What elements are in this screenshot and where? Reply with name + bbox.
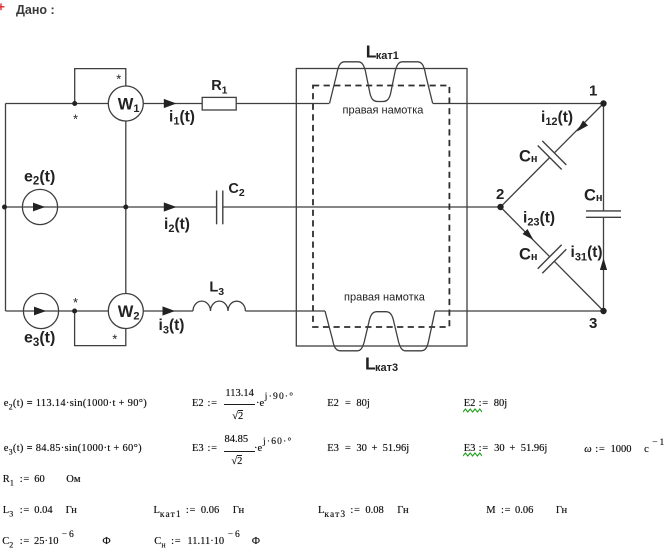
svg-text:L3: L3 xyxy=(209,280,224,298)
equation E2 evaluated xyxy=(327,398,370,410)
current arrow i23 xyxy=(523,209,556,240)
wire top branch segment 1 xyxy=(6,103,109,105)
equation L3 xyxy=(3,505,77,517)
coil Lkat1 xyxy=(330,42,433,104)
wattmeter W1 xyxy=(73,72,143,127)
wire diagonal node1-node2 upper segment xyxy=(554,104,603,153)
svg-text:i2(t): i2(t) xyxy=(164,216,190,235)
coupled inductor outer box xyxy=(296,69,467,347)
wattmeter W2 xyxy=(73,294,143,347)
node 3 xyxy=(589,308,607,332)
svg-text:правая намотка: правая намотка xyxy=(344,292,426,304)
equation Lkat1 xyxy=(154,505,245,517)
current arrow i2 xyxy=(164,202,190,235)
E2 exponent xyxy=(265,391,294,403)
wire middle branch segment 1 (bus to C2) xyxy=(6,206,217,208)
capacitor Cn (right vertical) xyxy=(584,187,621,218)
circuit schematic svg xyxy=(0,0,666,386)
equation E3 redefinition xyxy=(464,443,548,455)
junction dot middle branch center xyxy=(123,205,128,210)
wire middle branch segment 2 (C2 to node 2) xyxy=(223,206,501,208)
equation e3(t) time domain xyxy=(4,443,142,455)
E2 fraction denominator sqrt2 xyxy=(232,411,243,423)
svg-text:Cн: Cн xyxy=(519,246,538,264)
svg-text:кат1: кат1 xyxy=(376,50,399,62)
wire diagonal node2-node3 lower segment xyxy=(554,261,603,311)
E2 fraction bar xyxy=(224,404,255,405)
equation M xyxy=(486,505,567,517)
equation E3 evaluated xyxy=(327,443,409,455)
svg-text:i31(t): i31(t) xyxy=(571,244,603,263)
svg-text:Cн: Cн xyxy=(519,148,538,166)
junction dot left bus middle xyxy=(2,205,7,210)
current arrow i1 xyxy=(164,99,195,128)
wire diagonal node2-node3 upper segment xyxy=(501,207,550,257)
svg-text:правая намотка: правая намотка xyxy=(343,105,425,117)
wire bottom branch segment 2 (W2 to L3) xyxy=(143,310,193,312)
equation Cn xyxy=(154,535,260,548)
svg-text:C2: C2 xyxy=(228,181,244,199)
capacitor Cn (node1-node2 diagonal) xyxy=(519,141,566,170)
equation E3 complex definition xyxy=(192,443,218,455)
inductor L3 xyxy=(193,280,245,311)
svg-text:*: * xyxy=(73,295,78,310)
wire diagonal node1-node2 lower segment xyxy=(501,158,550,208)
wire top branch segment 3 (R1 to Lkat1 coil) xyxy=(236,103,329,105)
svg-text:3: 3 xyxy=(589,315,597,332)
resistor R1 xyxy=(202,78,236,110)
E3 fraction denominator sqrt2 xyxy=(231,456,242,468)
wire W1 voltage bracket xyxy=(75,69,126,104)
svg-text:*: * xyxy=(112,331,117,346)
equation e2(t) time domain xyxy=(4,398,147,410)
green squiggle under E3 xyxy=(463,452,482,457)
svg-text:e2(t): e2(t) xyxy=(24,168,55,187)
svg-text:i3(t): i3(t) xyxy=(159,317,185,336)
wire right vertical node1-node3 lower segment xyxy=(603,217,605,311)
source e2 xyxy=(22,168,57,224)
wire right vertical node1-node3 upper segment xyxy=(603,104,605,211)
header Dano xyxy=(16,3,55,17)
svg-text:кат3: кат3 xyxy=(375,362,398,374)
wire bottom branch segment 4 (coil to node 3) xyxy=(435,310,604,312)
junction dot top branch xyxy=(72,101,77,106)
E3 exponent xyxy=(263,436,292,448)
E2 fraction numerator xyxy=(225,388,254,400)
svg-text:i1(t): i1(t) xyxy=(169,108,195,127)
equation R1 xyxy=(3,474,81,486)
capacitor Cn (node2-node3 diagonal) xyxy=(519,245,566,274)
E3 fraction bar xyxy=(224,451,256,452)
equation Lkat3 xyxy=(318,505,409,517)
equation E2 complex definition xyxy=(192,398,218,410)
junction dot bottom branch xyxy=(72,309,77,314)
svg-text:i23(t): i23(t) xyxy=(523,209,555,228)
node 2 xyxy=(496,186,504,210)
svg-text:e3(t): e3(t) xyxy=(24,330,55,349)
wire bottom branch segment 1 (bus to W2) xyxy=(6,310,109,312)
svg-text:2: 2 xyxy=(496,186,504,203)
svg-text:Cн: Cн xyxy=(584,187,603,205)
current arrow i31 xyxy=(571,244,608,270)
coupled inductor dashed core box xyxy=(313,86,449,328)
svg-text:*: * xyxy=(73,112,78,127)
svg-text:i12(t): i12(t) xyxy=(541,109,573,128)
green squiggle under E2 xyxy=(463,408,482,413)
E3 dot e xyxy=(254,443,262,455)
coil Lkat3 xyxy=(325,311,435,374)
node 1 xyxy=(589,82,607,106)
wire top branch segment 2 (W1 to R1) xyxy=(143,103,202,105)
source e3 xyxy=(23,293,58,349)
equation C2 xyxy=(2,535,110,548)
svg-text:R1: R1 xyxy=(211,78,227,96)
red cursor cross xyxy=(0,0,8,14)
wire W2 voltage bracket xyxy=(75,311,126,346)
wire top branch segment 4 (coil to node 1) xyxy=(433,103,604,105)
svg-text:*: * xyxy=(116,72,121,87)
current arrow i3 xyxy=(159,306,185,336)
svg-text:1: 1 xyxy=(589,82,597,99)
E3 fraction numerator xyxy=(225,434,249,446)
equation omega xyxy=(584,443,664,456)
equation E2 redefinition xyxy=(464,398,507,410)
E2 dot e xyxy=(256,398,264,410)
current arrow i12 xyxy=(541,109,588,132)
wire bottom branch segment 3 (L3 to Lkat3 coil) xyxy=(245,310,325,312)
wire left vertical bus xyxy=(5,104,7,312)
wire vertical W1-W2 connector xyxy=(125,121,127,294)
capacitor C2 xyxy=(217,181,245,225)
